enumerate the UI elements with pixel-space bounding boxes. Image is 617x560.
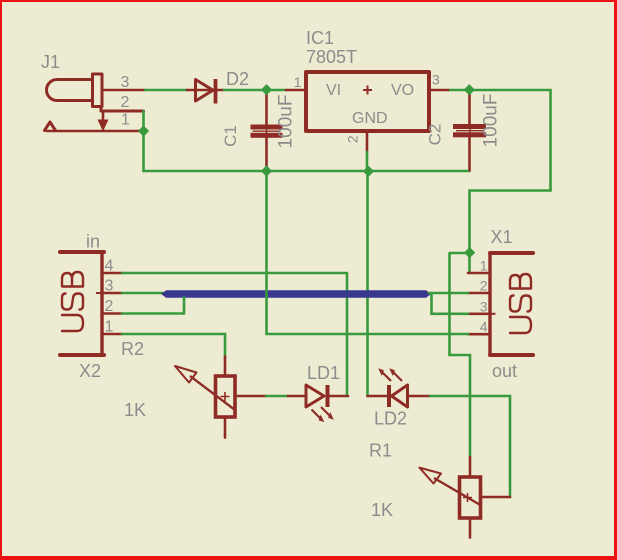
pin 2 of X1 [468, 292, 490, 295]
svg-text:4: 4 [480, 319, 488, 335]
svg-text:2: 2 [121, 94, 130, 111]
junction node at X1 pin1 [464, 247, 475, 258]
wire X2 pin1 to R2 [122, 334, 225, 357]
wire J1 pin3 to D2 [145, 89, 187, 92]
capacitor C2 [453, 94, 486, 171]
diode D2 [187, 79, 224, 104]
pin 4 of X1 [468, 333, 490, 336]
label USB X2 [62, 272, 83, 331]
svg-text:C2: C2 [426, 124, 445, 146]
svg-text:100uF: 100uF [276, 95, 297, 149]
wire R2 wiper to LD1 [266, 395, 288, 398]
wire X2 pin2 to bus [122, 298, 184, 314]
svg-text:1: 1 [480, 258, 488, 274]
wire X2 pin4 to LD1 cathode [122, 273, 347, 396]
pin 4 of X2 [102, 272, 122, 275]
svg-text:R1: R1 [369, 441, 392, 461]
connector X2 (USB in) [60, 252, 104, 355]
svg-text:IC1: IC1 [306, 28, 334, 48]
pin 2 of X2 [102, 312, 122, 315]
svg-text:1K: 1K [124, 400, 146, 420]
svg-text:1K: 1K [371, 500, 393, 520]
svg-text:R2: R2 [121, 339, 144, 359]
svg-text:D2: D2 [226, 69, 249, 89]
wire LD2 to R1 wiper [430, 396, 510, 497]
wire node X1 pin1 branch [450, 253, 471, 457]
ground rail wire [144, 170, 469, 173]
svg-text:VI: VI [326, 82, 341, 99]
pin 1 of X2 [102, 333, 122, 336]
svg-text:in: in [86, 232, 100, 252]
pin 3 of J1 [102, 89, 145, 92]
svg-text:X1: X1 [491, 227, 513, 247]
bus wire [161, 290, 431, 297]
junction node at IC out/C2 [464, 84, 475, 95]
svg-text:VO: VO [391, 82, 414, 99]
connector X1 (USB out) [490, 253, 533, 355]
junction node at J1 [138, 125, 149, 136]
wire IC pin2 to ground rail [366, 152, 369, 171]
LED LD2 [368, 368, 431, 407]
pin 1 of IC1 [286, 89, 304, 92]
svg-text:LD2: LD2 [374, 409, 407, 429]
wire X2 pin3 to bus [122, 292, 163, 295]
pin 3 of IC1 [431, 89, 448, 92]
svg-text:3: 3 [121, 74, 130, 91]
svg-text:1: 1 [105, 319, 114, 336]
svg-text:1: 1 [121, 112, 130, 129]
svg-text:4: 4 [105, 258, 114, 275]
svg-text:7805T: 7805T [306, 47, 357, 67]
svg-text:C1: C1 [221, 125, 240, 147]
svg-text:X2: X2 [79, 361, 101, 381]
svg-text:3: 3 [432, 72, 440, 88]
svg-text:GND: GND [352, 110, 388, 127]
wire node to C2 node [448, 90, 551, 273]
label USB X1 [510, 274, 531, 333]
pin 2 of IC1 [366, 133, 369, 152]
trimmer R2 [175, 357, 266, 438]
pin 1 of X1 [468, 272, 490, 275]
svg-text:2: 2 [105, 298, 114, 315]
pin 1 of J1 [47, 130, 144, 133]
svg-text:2: 2 [345, 135, 361, 143]
wire jack pin2 down [142, 111, 145, 171]
svg-text:out: out [492, 361, 517, 381]
connector J1 (DC jack) [45, 74, 144, 132]
svg-text:2: 2 [480, 278, 488, 294]
svg-text:3: 3 [105, 278, 114, 295]
wire ground rail to X1 pin4 [267, 171, 469, 334]
plus mark in IC [363, 86, 372, 95]
junction node at D2/C1 [261, 84, 272, 95]
pin 3 of X2 [102, 292, 122, 295]
svg-text:J1: J1 [41, 52, 60, 72]
pin 3 of X1 [468, 312, 490, 315]
IC U1 7805 box [306, 72, 429, 131]
svg-text:3: 3 [480, 298, 488, 314]
LED LD1 [288, 385, 348, 422]
junction node at IC GND/ground rail [363, 166, 374, 177]
svg-text:LD1: LD1 [307, 363, 340, 383]
wire ground rail to LD2 [366, 171, 369, 396]
svg-text:100uF: 100uF [481, 94, 502, 148]
trimmer R1 [419, 457, 510, 538]
svg-text:1: 1 [294, 74, 302, 90]
junction node at C1/ground rail [261, 165, 272, 176]
wire bus to X1 pin2 [429, 292, 468, 295]
wire bus to X1 pin3 [432, 295, 469, 314]
wire D2 to node [224, 89, 286, 92]
capacitor C1 [251, 94, 283, 171]
